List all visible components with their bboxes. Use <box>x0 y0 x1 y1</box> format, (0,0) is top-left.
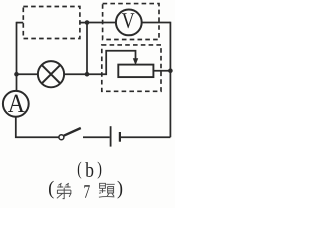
wire: lamp right lead to junction <box>64 73 87 75</box>
wire: ammeter bottom to bottom-left corner then right to switch <box>16 117 59 137</box>
wire: left bus vertical down to lamp row <box>16 22 18 74</box>
battery long plate <box>110 126 112 146</box>
wire: rheostat slider feed (step up, across, arrow down) <box>87 51 136 74</box>
caption (第 7 题) <box>49 181 122 199</box>
ammeter circle <box>3 91 29 117</box>
switch pivot <box>59 135 64 140</box>
caption (b) <box>78 162 81 179</box>
switch lever <box>64 128 81 136</box>
wire: battery to bottom-right corner <box>121 136 171 138</box>
lamp (circle with X) <box>38 61 64 87</box>
wire: voltmeter right terminal to right bus <box>142 22 171 24</box>
junction dot (rheostat / right bus) <box>168 68 173 73</box>
wire: hook from left bus into empty box <box>17 22 24 24</box>
dashed box around rheostat <box>102 45 161 91</box>
hanzi DI (第) sketch <box>57 183 71 199</box>
wire: switch fixed contact to battery <box>83 136 110 138</box>
dashed box (empty component slot, top-left) <box>23 7 80 39</box>
rheostat arrowhead <box>133 58 138 65</box>
wire: left bus down to ammeter <box>16 74 18 90</box>
dashed box around voltmeter <box>103 4 159 40</box>
hanzi TI (题) sketch <box>99 183 115 197</box>
wire: to voltmeter left terminal <box>87 22 116 24</box>
junction dot (voltmeter tap) <box>85 20 90 25</box>
wire: lamp left lead <box>17 73 39 75</box>
wire: hook from empty box right edge <box>80 22 87 24</box>
wire: right bus vertical <box>169 22 171 138</box>
voltmeter letter V <box>122 13 134 28</box>
voltmeter U=V circle <box>116 10 142 36</box>
junction dot (lamp left / bus) <box>14 72 19 77</box>
rheostat body rectangle <box>118 65 153 78</box>
battery short plate <box>119 132 121 142</box>
wire: rheostat right lead <box>153 70 170 72</box>
junction dot (lamp right / top branch) <box>85 72 90 77</box>
wire: vertical from top hook down to lamp-row junction <box>86 23 88 75</box>
ammeter letter A <box>8 95 25 112</box>
